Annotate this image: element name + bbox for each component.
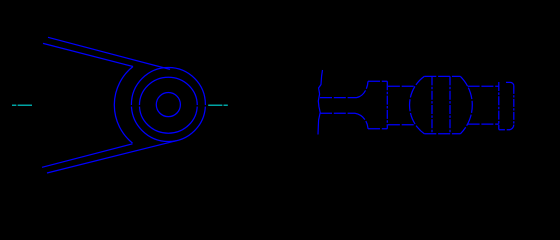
cap right face [513, 86, 515, 125]
centerline left mark [12, 104, 32, 106]
ball internal vertical left [431, 76, 433, 133]
ball flat top [424, 75, 460, 77]
waist top line [320, 97, 357, 99]
ball left arc [410, 76, 425, 133]
cap bottom-right corner and bottom line [499, 125, 514, 130]
top inner tangent line [43, 43, 133, 66]
top outer tangent line [48, 37, 170, 69]
flange right face [386, 81, 388, 129]
fork arc around boss [114, 67, 133, 144]
break line (wavy, solid) [318, 70, 323, 135]
inner hole circle [156, 93, 180, 117]
flange bottom [368, 128, 387, 130]
flange top [368, 80, 387, 82]
outer boss circle [131, 68, 205, 142]
waist bottom line [320, 112, 355, 114]
neck2 top [388, 85, 415, 87]
middle boss circle [139, 77, 197, 133]
centerline right mark [208, 104, 228, 106]
cap top stub and top-right corner [506, 82, 514, 86]
ball right arc [460, 76, 472, 133]
ball internal vertical right [449, 76, 451, 133]
neck3 bottom [468, 123, 499, 125]
cyan centerlines, left view [12, 104, 228, 106]
bottom fillet to flange [355, 113, 368, 129]
ball flat bottom [424, 133, 460, 135]
cap left face [498, 82, 500, 130]
bottom outer tangent line [47, 141, 176, 173]
top fillet to flange [357, 81, 369, 97]
gap right [196, 105, 208, 107]
bottom inner tangent line [42, 144, 133, 168]
neck2 bottom [388, 124, 415, 126]
gap left [130, 105, 143, 107]
neck3 top [468, 85, 499, 87]
centerline gaps over circles (black dashes at horizontal diameter) [130, 105, 208, 107]
